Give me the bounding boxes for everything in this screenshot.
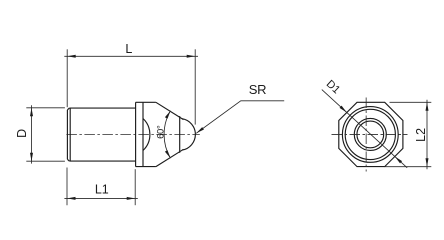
svg-text:SR: SR [249,82,266,97]
svg-text:L1: L1 [95,183,109,197]
svg-text:60°: 60° [156,125,167,139]
svg-text:D: D [15,129,29,138]
svg-text:L2: L2 [414,128,428,142]
svg-text:L: L [125,42,132,56]
